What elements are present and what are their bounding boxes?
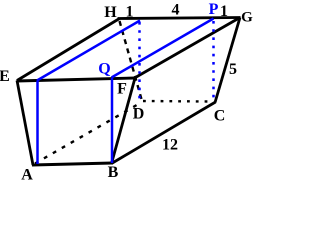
svg-text:Q: Q xyxy=(98,61,110,78)
edge AB (front bottom edge) xyxy=(32,163,113,165)
svg-text:E: E xyxy=(0,68,10,85)
svg-text:4: 4 xyxy=(172,2,180,19)
svg-text:H: H xyxy=(104,4,117,21)
edge FG (right edge of top face) xyxy=(135,18,241,79)
svg-text:G: G xyxy=(241,10,253,26)
edge FB (front-right slant edge) xyxy=(112,78,136,164)
blue section line QP on top face xyxy=(112,19,214,78)
svg-text:B: B xyxy=(108,164,119,181)
blue section line through A on top face (parallel to EH) xyxy=(37,21,140,81)
edge EH (left edge of top face) xyxy=(17,19,120,81)
edge HD (hidden, dashed) xyxy=(120,21,143,101)
edge AD (hidden, dashed) xyxy=(35,102,142,164)
svg-text:1: 1 xyxy=(126,4,134,21)
edge EF (front edge of top face) xyxy=(17,78,136,81)
blue dotted vertical from P to C xyxy=(212,21,215,99)
svg-text:C: C xyxy=(214,108,226,125)
svg-text:A: A xyxy=(21,167,33,183)
blue vertical section edge above A xyxy=(36,81,39,165)
blue dotted vertical from tick to D xyxy=(138,22,141,100)
svg-text:1: 1 xyxy=(220,3,228,20)
svg-text:5: 5 xyxy=(229,61,237,78)
edge DC (hidden, dashed) xyxy=(143,100,208,103)
blue vertical section edge QB xyxy=(111,78,114,163)
svg-text:F: F xyxy=(117,81,127,98)
edge HG (top edge of top face) xyxy=(118,18,241,19)
svg-text:D: D xyxy=(133,106,145,123)
svg-text:12: 12 xyxy=(162,137,178,154)
svg-text:P: P xyxy=(209,1,219,18)
edge GC (back-right slant edge, length 5) xyxy=(215,18,240,103)
edge BC (bottom-right edge, length 12) xyxy=(112,102,216,164)
edge EA (front-left slant edge) xyxy=(17,81,33,166)
